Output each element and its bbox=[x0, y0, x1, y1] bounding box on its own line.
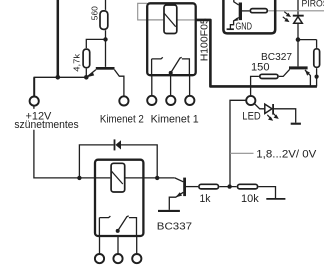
svg-text:10k: 10k bbox=[241, 193, 259, 205]
svg-text:H100F05: H100F05 bbox=[198, 18, 210, 61]
svg-text:LED: LED bbox=[242, 110, 261, 122]
svg-text:1k: 1k bbox=[200, 193, 211, 205]
svg-text:560: 560 bbox=[90, 6, 99, 21]
svg-text:Kimenet 2: Kimenet 2 bbox=[100, 113, 144, 125]
svg-text:150: 150 bbox=[251, 62, 270, 74]
svg-text:PIROS: PIROS bbox=[302, 0, 324, 8]
svg-text:GND: GND bbox=[236, 22, 253, 33]
svg-text:BC327: BC327 bbox=[261, 52, 292, 63]
svg-text:1,8...2V/ 0V: 1,8...2V/ 0V bbox=[256, 149, 317, 161]
svg-text:BC337: BC337 bbox=[157, 221, 193, 232]
svg-text:szünetmentes: szünetmentes bbox=[14, 119, 79, 131]
svg-text:4,7k: 4,7k bbox=[72, 53, 82, 72]
svg-text:Kimenet 1: Kimenet 1 bbox=[151, 113, 199, 125]
